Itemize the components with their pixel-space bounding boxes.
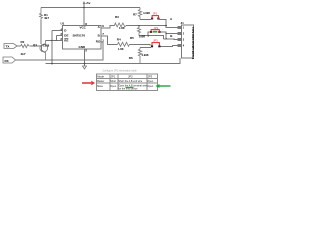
wire D pin vertical — [51, 31, 53, 64]
svg-text:R5: R5 — [130, 36, 134, 40]
wire DE pin — [57, 34, 63, 36]
svg-text:U1: U1 — [61, 22, 65, 26]
svg-text:C828: C828 — [43, 44, 50, 48]
svg-text:4k7: 4k7 — [21, 52, 26, 56]
svg-text:A: A — [170, 17, 173, 21]
table green highlight — [126, 87, 134, 88]
svg-text:JP2: JP2 — [128, 75, 133, 79]
jumper JP2 red bridge — [151, 30, 159, 33]
svg-text:Open: Open — [147, 80, 154, 83]
svg-text:+5v: +5v — [85, 1, 90, 5]
node RX — [3, 57, 16, 63]
table jumper configuration — [97, 74, 158, 91]
ground — [83, 66, 87, 69]
svg-text:B: B — [98, 33, 101, 37]
svg-text:CON-DB9-RS485-BUS-1: CON-DB9-RS485-BUS-1 — [191, 27, 195, 60]
svg-text:JP1: JP1 — [153, 11, 158, 15]
wire GND long line — [46, 58, 180, 64]
svg-text:Slave: Slave — [97, 85, 104, 88]
wire RO stub — [101, 41, 103, 43]
wire DE/RE bus — [46, 39, 63, 41]
svg-text:J1: J1 — [181, 21, 185, 25]
wire GND pin 5 — [84, 49, 86, 66]
svg-text:100R: 100R — [139, 35, 145, 39]
svg-text:JP3: JP3 — [153, 39, 158, 43]
svg-text:7: 7 — [102, 32, 104, 36]
svg-text:RO: RO — [96, 39, 101, 43]
svg-text:1.8K: 1.8K — [119, 26, 125, 30]
wire +5V rail — [41, 7, 140, 9]
svg-text:1: 1 — [183, 27, 185, 30]
annotation green arrow — [159, 85, 171, 87]
node B junction — [165, 38, 167, 40]
svg-text:TX: TX — [6, 45, 10, 49]
svg-text:B: B — [170, 34, 173, 38]
wire R1 to Q1 base — [40, 20, 42, 44]
node pin2 junction — [165, 33, 167, 35]
annotation red arrow — [82, 82, 91, 84]
svg-text:Mode: Mode — [97, 75, 104, 79]
wire JP1 out — [160, 19, 182, 27]
svg-text:Configure JP1 Information tabl: Configure JP1 Information table — [103, 70, 138, 73]
wire D pin — [52, 30, 63, 32]
node +5v junction — [83, 7, 85, 9]
svg-text:Master: Master — [97, 80, 105, 83]
svg-text:JP2: JP2 — [154, 26, 159, 30]
jumper JP2 pads — [150, 31, 161, 33]
svg-text:for the end device: for the end device — [118, 88, 138, 91]
svg-text:4.99K: 4.99K — [142, 53, 149, 57]
wire JP3 out to gnd — [161, 46, 182, 47]
jumper JP3 pads — [151, 45, 161, 47]
svg-text:SN75176: SN75176 — [73, 33, 86, 37]
node bus junctions — [51, 39, 57, 61]
svg-text:D: D — [64, 29, 67, 33]
wire A line — [126, 25, 166, 27]
svg-text:JP1: JP1 — [111, 75, 116, 79]
resistor R6 — [138, 48, 141, 64]
svg-text:VCC: VCC — [80, 26, 87, 30]
svg-text:Q1: Q1 — [33, 43, 37, 47]
svg-text:Open: Open — [110, 85, 117, 88]
svg-text:Open: Open — [147, 85, 154, 88]
svg-text:R3: R3 — [115, 15, 119, 19]
svg-text:2: 2 — [183, 33, 185, 36]
wire JP2 out — [139, 32, 182, 39]
node gnd junctions — [51, 63, 85, 65]
svg-text:R7: R7 — [133, 13, 137, 17]
wire R2 to Q1 base — [30, 45, 42, 47]
wire TX to R2 — [17, 45, 21, 47]
connector pin boxes — [178, 27, 182, 47]
resistor R2 — [21, 44, 30, 47]
svg-text:Short: Short — [110, 80, 116, 83]
svg-text:1: 1 — [102, 38, 104, 42]
node A junction — [165, 25, 167, 27]
resistor R1 — [40, 8, 43, 21]
svg-text:JP3: JP3 — [148, 75, 153, 79]
svg-text:RE: RE — [64, 38, 68, 42]
node R5 top junction — [138, 25, 140, 27]
jumper JP1 red bridge — [152, 16, 158, 19]
wire R7 to JP1 — [140, 18, 151, 20]
svg-text:4.99K: 4.99K — [143, 11, 150, 15]
wire RX line — [16, 42, 104, 60]
transistor Q1 — [40, 40, 48, 60]
wire B line — [164, 38, 182, 41]
connector J1 body — [182, 25, 194, 58]
svg-text:4: 4 — [183, 45, 185, 48]
node JP2 left link junction — [147, 35, 149, 37]
svg-text:4k7: 4k7 — [44, 16, 49, 20]
wire R4 to JP3 — [130, 44, 151, 45]
svg-text:RX: RX — [5, 59, 9, 63]
+5v supply symbol — [83, 2, 85, 26]
label RE overline — [64, 37, 68, 39]
wire DE vertical — [56, 35, 58, 40]
resistor R3 — [115, 23, 127, 27]
wire pin B stub — [101, 36, 118, 44]
node TX — [4, 44, 17, 49]
svg-text:Short the A,B end wire: Short the A,B end wire — [118, 80, 142, 83]
svg-text:6: 6 — [102, 24, 104, 28]
wire R6 top to JP3 pad — [140, 47, 151, 49]
wire pin A stub — [101, 26, 115, 29]
svg-text:3: 3 — [183, 39, 185, 42]
op-amp U1 SN75176 box — [63, 26, 102, 49]
resistor R5 — [137, 26, 140, 36]
resistor R4 — [118, 42, 130, 46]
jumper JP1 pads — [151, 18, 160, 20]
label connector pins — [183, 27, 185, 48]
jumper JP3 red bridge — [152, 43, 159, 46]
svg-text:1.8K: 1.8K — [118, 47, 124, 51]
resistor R7 — [138, 8, 141, 20]
svg-text:R6: R6 — [129, 56, 133, 60]
svg-text:DE: DE — [64, 34, 68, 38]
jumper JP2 green shunt — [153, 31, 157, 33]
svg-text:R2: R2 — [21, 40, 25, 44]
svg-text:R4: R4 — [117, 37, 121, 41]
